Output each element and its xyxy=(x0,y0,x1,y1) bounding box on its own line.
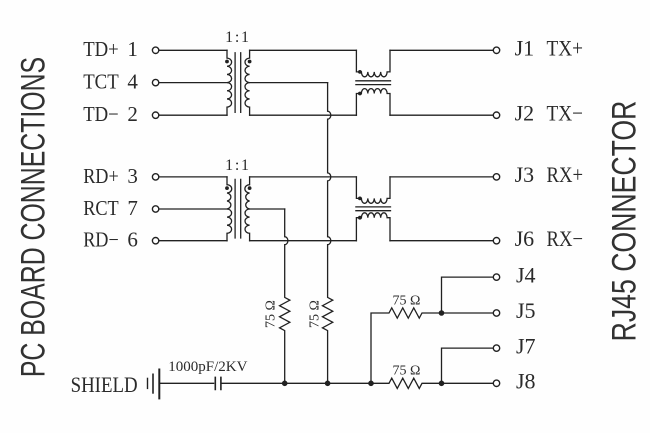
wire choke L1 to J1 xyxy=(390,49,493,51)
terminal circle J5 xyxy=(493,310,499,316)
wire J7 branch xyxy=(442,348,494,383)
svg-text:1:1: 1:1 xyxy=(225,157,251,174)
svg-text:1:1: 1:1 xyxy=(225,29,251,46)
wire choke L2 to J3 xyxy=(390,176,493,178)
junction dot J8 node xyxy=(439,381,445,387)
svg-text:J6: J6 xyxy=(515,226,535,251)
terminal circle TD+ 1 xyxy=(152,47,158,53)
svg-text:RX−: RX− xyxy=(547,226,584,251)
terminal circle J4 xyxy=(493,274,499,280)
terminal circle TD- 2 xyxy=(152,112,158,118)
terminal circle TCT 4 xyxy=(152,79,158,85)
terminal circle J6 xyxy=(493,238,499,244)
wire T1 secondary bottom to choke L1 xyxy=(250,114,357,116)
svg-text:6: 6 xyxy=(127,228,137,252)
wire T2 secondary bottom to choke L2 xyxy=(250,240,357,242)
wire choke L1 to J2 xyxy=(390,114,493,116)
terminal circle J7 xyxy=(493,345,499,351)
svg-text:J7: J7 xyxy=(516,333,536,358)
transformer T1 secondary polarity dot xyxy=(248,60,252,64)
junction dot J5 node xyxy=(439,310,445,316)
transformer T2 secondary polarity dot xyxy=(248,186,252,190)
junction dot R3 left leg xyxy=(368,381,374,387)
transformer T2 primary winding xyxy=(227,177,232,241)
choke L1 lower winding xyxy=(356,89,390,116)
wire RD+ to T2 primary top xyxy=(159,176,227,178)
wire TD+ to T1 primary top xyxy=(159,49,227,51)
svg-text:J8: J8 xyxy=(516,369,536,394)
choke L1 lower polarity dot xyxy=(358,92,362,96)
svg-text:TD−: TD− xyxy=(83,102,119,126)
terminal circle RCT 7 xyxy=(152,206,158,212)
wire shield to capacitor C1 xyxy=(160,382,213,384)
choke L2 lower polarity dot xyxy=(358,216,362,220)
transformer T1 secondary winding xyxy=(245,50,250,115)
svg-text:2: 2 xyxy=(127,102,137,126)
svg-text:TX+: TX+ xyxy=(547,36,584,61)
choke L1 core xyxy=(356,81,391,85)
junction dot R2 bottom xyxy=(325,381,331,387)
wire T2 secondary top to choke L2 xyxy=(250,176,357,178)
svg-text:J5: J5 xyxy=(516,298,536,323)
svg-text:TX−: TX− xyxy=(547,100,584,125)
svg-text:1: 1 xyxy=(127,37,137,61)
transformer T1 primary winding xyxy=(227,50,232,115)
terminal circle J2 xyxy=(493,112,499,118)
transformer T2 primary polarity dot xyxy=(225,186,229,190)
wire J5 to junction xyxy=(442,312,494,314)
resistor R3 75 ohm with leads xyxy=(371,308,442,383)
choke L2 upper polarity dot xyxy=(358,197,362,201)
wire RD- to T2 primary bottom xyxy=(159,240,227,242)
shield symbol bar 1 (short) xyxy=(147,378,149,388)
svg-text:RJ45 CONNECTOR: RJ45 CONNECTOR xyxy=(605,101,643,342)
svg-text:RD+: RD+ xyxy=(83,164,119,188)
svg-text:J1: J1 xyxy=(515,36,535,61)
junction dot R1 bottom xyxy=(282,381,288,387)
svg-text:RX+: RX+ xyxy=(547,162,584,187)
wire TD- to T1 primary bottom xyxy=(159,114,227,116)
choke L2 lower winding xyxy=(356,213,390,241)
svg-text:75 Ω: 75 Ω xyxy=(393,363,421,378)
svg-text:TD+: TD+ xyxy=(83,37,119,61)
terminal circle RD- 6 xyxy=(152,238,158,244)
wire T2 secondary center tap across xyxy=(250,208,285,210)
wire T1 secondary center tap across xyxy=(250,82,328,84)
svg-text:75 Ω: 75 Ω xyxy=(393,293,421,308)
choke L1 upper winding xyxy=(356,50,390,77)
shield symbol bar 3 (tall) xyxy=(158,370,160,399)
choke L1 upper polarity dot xyxy=(358,70,362,74)
wire T2 tap vertical with hop and resistor R1 xyxy=(280,209,290,383)
svg-text:1000pF/2KV: 1000pF/2KV xyxy=(168,359,247,375)
capacitor C1 plates xyxy=(215,377,221,389)
choke L2 core xyxy=(356,207,391,211)
svg-text:J2: J2 xyxy=(515,100,535,125)
svg-text:7: 7 xyxy=(127,196,137,220)
wire T1 tap vertical with hops and resistor R2 xyxy=(322,83,332,384)
choke L2 upper winding xyxy=(356,177,390,203)
transformer T1 primary polarity dot xyxy=(225,60,229,64)
svg-text:TCT: TCT xyxy=(83,70,119,94)
transformer T1 core xyxy=(235,53,241,113)
wire T1 secondary top to choke L1 xyxy=(250,49,357,51)
wire TCT to T1 primary tap xyxy=(159,82,227,84)
svg-text:3: 3 xyxy=(127,164,137,188)
wire RCT to T2 primary tap xyxy=(159,208,227,210)
transformer T2 secondary winding xyxy=(245,177,250,241)
svg-text:75 Ω: 75 Ω xyxy=(308,300,323,328)
terminal circle J8 xyxy=(493,380,499,386)
svg-text:4: 4 xyxy=(127,70,138,94)
svg-text:PC BOARD CONNECTIONS: PC BOARD CONNECTIONS xyxy=(15,57,53,377)
terminal circle J3 xyxy=(493,174,499,180)
wire choke L2 to J6 xyxy=(390,240,493,242)
svg-text:RD−: RD− xyxy=(83,228,119,252)
ground bus wire with resistor R4 xyxy=(222,378,493,388)
svg-text:75 Ω: 75 Ω xyxy=(264,300,279,328)
shield symbol bar 2 (medium) xyxy=(152,374,154,393)
svg-text:SHIELD: SHIELD xyxy=(71,372,138,397)
transformer T2 core xyxy=(235,179,241,238)
svg-text:J3: J3 xyxy=(515,162,535,187)
svg-text:RCT: RCT xyxy=(83,196,119,220)
terminal circle J1 xyxy=(493,47,499,53)
terminal circle RD+ 3 xyxy=(152,174,158,180)
wire J4 branch xyxy=(442,277,494,313)
svg-text:J4: J4 xyxy=(516,262,536,287)
